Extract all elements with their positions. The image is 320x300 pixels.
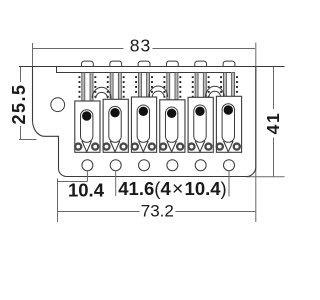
- string hole 5: [195, 160, 206, 171]
- ext line string hole 6: [228, 171, 230, 197]
- mounting screw tab 6: [223, 61, 235, 67]
- intonation screw shaft 6: [223, 73, 234, 97]
- rear arc 1: [92, 87, 111, 98]
- mounting screw tab 1: [82, 61, 94, 67]
- spring dots saddle 2: [107, 76, 125, 98]
- saddle 6: [216, 96, 241, 152]
- dim 41 line: [273, 67, 275, 177]
- spring dots saddle 6: [220, 76, 238, 93]
- saddle 1: [75, 101, 100, 152]
- saddle 3: [131, 97, 156, 152]
- dim 25.5 line: [20, 67, 22, 140]
- dim 73.2 line: [58, 211, 256, 213]
- spring dots saddle 1: [79, 76, 97, 98]
- string hole 6: [224, 160, 235, 171]
- plate bottom-right dim 41 tick: [246, 176, 285, 178]
- plate top edge (over tabs): [19, 66, 285, 68]
- dim 83 left tick: [32, 43, 34, 67]
- dim 83 / 73.2 right extension line: [255, 43, 257, 223]
- rear wall band: [57, 67, 232, 73]
- ext line plate lower-left edge: [57, 179, 59, 223]
- string hole 3: [139, 160, 150, 171]
- svg-text:10.4: 10.4: [68, 180, 105, 201]
- spring dots saddle 4: [163, 76, 181, 98]
- intonation screw shaft 3: [138, 73, 149, 98]
- mounting screw tab 3: [138, 61, 150, 67]
- svg-text:83: 83: [130, 35, 151, 55]
- mounting screw tab 5: [195, 61, 207, 67]
- svg-text:41: 41: [263, 112, 283, 135]
- bridge base plate outline: [33, 67, 256, 177]
- svg-text:73.2: 73.2: [141, 202, 174, 221]
- string hole 1: [82, 160, 93, 171]
- string hole 4: [167, 160, 178, 171]
- saddle 4: [160, 100, 185, 153]
- ext line string hole 2: [115, 171, 117, 196]
- saddle 5: [188, 97, 213, 152]
- mounting screw tab 2: [110, 61, 122, 67]
- intonation screw shaft 4: [167, 73, 178, 100]
- intonation screw shaft 1: [82, 73, 93, 102]
- dim 83 top line: [33, 48, 255, 50]
- left mounting hole: [51, 98, 65, 112]
- string hole 2: [110, 160, 121, 171]
- dim 25.5 bottom tick: [19, 139, 37, 141]
- svg-text:41.6(4×10.4): 41.6(4×10.4): [118, 178, 226, 200]
- ext line string hole 1: [86, 171, 88, 182]
- rear arc 3: [205, 86, 224, 97]
- intonation screw shaft 2: [110, 73, 121, 100]
- plate top edge with dim ticks: [19, 66, 285, 68]
- saddle 2: [103, 99, 128, 152]
- rear arc 2: [149, 86, 168, 97]
- dim 10.4 line: [58, 181, 88, 183]
- mounting screw tab 4: [166, 61, 178, 67]
- svg-text:25.5: 25.5: [9, 83, 29, 124]
- spring dots saddle 3: [135, 76, 153, 93]
- intonation screw shaft 5: [195, 73, 206, 98]
- spring dots saddle 5: [192, 76, 210, 98]
